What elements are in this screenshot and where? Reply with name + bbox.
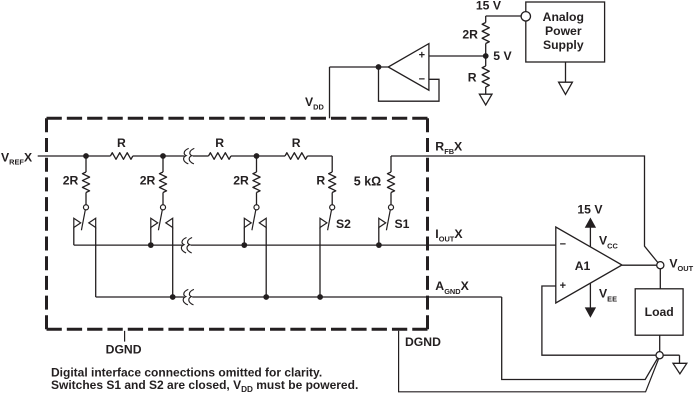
svg-text:15 V: 15 V [577,203,603,217]
svg-text:2R: 2R [233,173,249,187]
svg-text:R: R [316,173,325,187]
svg-text:R: R [215,136,224,150]
svg-text:+: + [560,280,566,292]
svg-text:R: R [292,136,301,150]
svg-text:Switches S1 and S2 are closed,: Switches S1 and S2 are closed, VDD must … [51,378,358,394]
svg-text:5 V: 5 V [493,49,512,63]
svg-text:2R: 2R [140,173,156,187]
svg-text:+: + [419,50,425,62]
svg-text:A1: A1 [575,259,591,273]
svg-text:5 kΩ: 5 kΩ [354,174,381,188]
svg-text:S2: S2 [336,217,351,231]
svg-text:Load: Load [645,305,674,319]
svg-text:−: − [560,239,566,251]
svg-text:2R: 2R [63,173,79,187]
svg-text:Supply: Supply [543,38,584,52]
svg-text:−: − [419,73,425,85]
svg-text:2R: 2R [462,28,478,42]
svg-text:S1: S1 [395,217,410,231]
svg-text:DGND: DGND [405,335,441,349]
svg-text:R: R [117,136,126,150]
svg-text:Power: Power [545,24,582,38]
svg-text:15 V: 15 V [476,0,502,12]
svg-text:DGND: DGND [106,343,142,357]
svg-text:Analog: Analog [543,10,584,24]
svg-text:R: R [468,71,477,85]
